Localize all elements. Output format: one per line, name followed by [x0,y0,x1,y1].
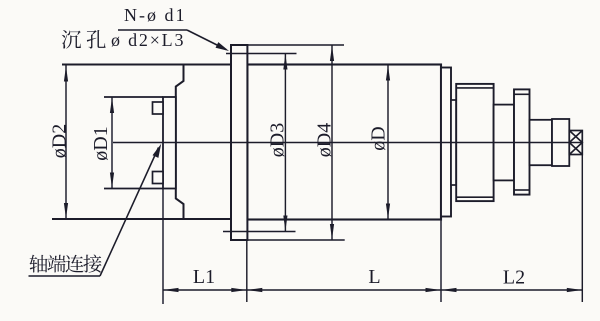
keyway block upper [153,102,164,114]
svg-text:øD2: øD2 [49,124,71,158]
svg-text:øD: øD [368,126,390,150]
flange disc oD4 [231,45,247,240]
dim oD4 [331,46,333,240]
left body (bearing housing) with chamfered boss [176,65,231,220]
extension line shaft tip [581,155,583,303]
svg-text:øD1: øD1 [90,126,112,160]
oD2 top extension line [62,64,184,66]
shaft section 4 [530,120,553,165]
shaft section 3 [494,105,514,181]
nut ring [514,89,530,194]
shaft end oD1 [163,97,176,189]
oD3 bottom extension line [223,231,296,233]
svg-text:L1: L1 [193,266,215,288]
leader for shaft-end note [100,148,159,277]
main motor body oD [247,65,441,220]
shaft end collar 5 [552,119,569,166]
svg-text:øD4: øD4 [314,123,336,157]
svg-text:L: L [368,266,380,288]
leader for counterbore note [118,29,187,31]
oD2 bottom extension line [52,218,184,220]
dim oD1 [111,98,113,189]
label chenkong o d2xL3 [62,30,81,48]
extension line left shaft face [162,189,164,305]
extension line body right face [440,220,442,303]
keyway block lower [153,172,164,184]
ring 1 [441,68,451,217]
oD4 bottom extension line [247,239,344,241]
extension line flange face [246,240,248,302]
label underline [29,275,101,277]
dim oD [387,65,389,219]
svg-text:L2: L2 [503,267,525,289]
svg-text:øD3: øD3 [267,123,289,157]
dim oD2 [65,65,67,219]
oD4 top extension line [247,44,344,46]
oD3 top extension line [226,53,297,55]
neck between ring1 and block2 [451,100,456,185]
svg-text:N-ø d1: N-ø d1 [124,5,187,25]
block 2 (bearing cap) [456,84,493,201]
oD1 top extension line [104,96,163,98]
threaded end square with cross [569,131,582,155]
centerline axis [113,142,583,144]
dim line L1 L L2 [163,289,582,291]
dim oD3 [284,54,286,231]
label zhou duan lian jie [29,255,47,273]
svg-text:ø d2×L3: ø d2×L3 [111,30,185,50]
oD1 bottom extension line [104,188,163,190]
